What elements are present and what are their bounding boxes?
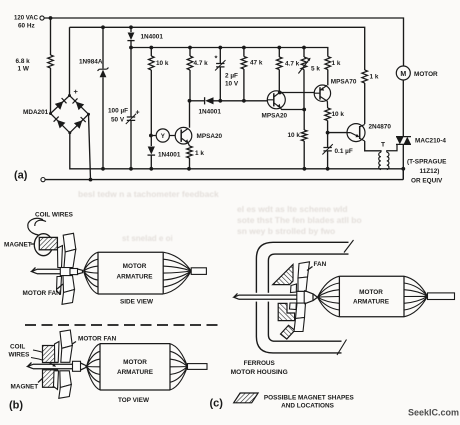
svg-text:OR EQUIV: OR EQUIV bbox=[411, 177, 443, 184]
svg-text:FERROUS: FERROUS bbox=[244, 360, 276, 367]
svg-text:100 µF: 100 µF bbox=[108, 108, 128, 115]
diode D1 1N4001 (series, top) bbox=[130, 27, 132, 32]
svg-text:MOTOR: MOTOR bbox=[123, 263, 147, 270]
transistor Q3 MPSA70 (PNP) bbox=[314, 85, 330, 101]
magnet lower (top view) bbox=[43, 370, 58, 388]
svg-text:MPSA70: MPSA70 bbox=[331, 79, 357, 86]
motor armature (c) bbox=[339, 276, 404, 317]
svg-text:4.7 k: 4.7 k bbox=[285, 61, 300, 68]
armature shaft right (side view) bbox=[191, 268, 206, 275]
svg-text:1N4001: 1N4001 bbox=[199, 109, 222, 116]
node: junction top bus / 6.8k bbox=[49, 16, 53, 20]
svg-text:ARMATURE: ARMATURE bbox=[116, 274, 153, 281]
resistor 10k (below pot) bbox=[303, 110, 305, 131]
wire: Q2 emitter to 5k/10k node bbox=[281, 108, 305, 110]
terminal: AC input bottom bbox=[41, 178, 45, 182]
node: bus C junction x=279.3 bbox=[277, 46, 281, 50]
svg-text:st snelad e oi: st snelad e oi bbox=[122, 234, 173, 243]
svg-text:1 k: 1 k bbox=[332, 60, 341, 67]
transistor Q1 MPSA20 bbox=[189, 101, 191, 128]
wire: bottom AC return line bbox=[45, 179, 403, 181]
svg-text:COIL WIRES: COIL WIRES bbox=[35, 212, 74, 219]
svg-text:10 k: 10 k bbox=[156, 60, 169, 67]
resistor 1k (emitter MPSA70) bbox=[325, 57, 331, 70]
transistor Q2 MPSA20 bbox=[267, 91, 285, 109]
node: bus C junction x=220.3 bbox=[218, 46, 222, 50]
svg-text:MOTOR: MOTOR bbox=[414, 71, 438, 78]
diode 1N4001 (lower left) bbox=[150, 136, 152, 147]
bridge diode upper-right bbox=[76, 102, 85, 111]
capacitor C1 100uF 50V (filter) bbox=[130, 48, 132, 118]
svg-text:60 Hz: 60 Hz bbox=[18, 23, 35, 30]
svg-text:(c): (c) bbox=[210, 398, 224, 410]
svg-text:10 k: 10 k bbox=[332, 111, 345, 118]
housing break marks bbox=[337, 240, 354, 355]
svg-text:SeekIC.com: SeekIC.com bbox=[408, 408, 459, 418]
svg-text:MOTOR FAN: MOTOR FAN bbox=[23, 290, 62, 297]
fan blades (top view, front) bbox=[59, 330, 73, 398]
bridge diode upper-left bbox=[55, 101, 64, 109]
magnet upper (top view) bbox=[43, 346, 58, 363]
armature nose cone (side view) bbox=[78, 269, 83, 274]
resistor 4.7k (second) bbox=[278, 48, 280, 58]
svg-text:T: T bbox=[381, 141, 385, 148]
svg-text:2N4870: 2N4870 bbox=[369, 124, 392, 131]
svg-text:MOTOR HOUSING: MOTOR HOUSING bbox=[231, 369, 288, 376]
magnet diamond (c) bbox=[281, 325, 295, 339]
svg-text:(a): (a) bbox=[14, 170, 28, 182]
svg-text:11Z12): 11Z12) bbox=[420, 168, 440, 175]
node: DC- bus junction x=151.3 bbox=[149, 167, 153, 171]
svg-text:MPSA20: MPSA20 bbox=[197, 133, 223, 140]
potentiometer 5k bbox=[303, 48, 305, 58]
pickup coil Y (tach sensor) bbox=[151, 135, 156, 137]
svg-text:MAGNET: MAGNET bbox=[4, 242, 32, 249]
wire: DC+ bus (bus B) from bridge top to right, down to 1k/UJT bbox=[70, 27, 365, 95]
svg-text:(T-SPRAGUE: (T-SPRAGUE bbox=[407, 158, 447, 165]
dashed separator line bbox=[25, 324, 222, 326]
svg-text:(b): (b) bbox=[9, 400, 23, 412]
motor fan blades (side view, front) bbox=[62, 233, 76, 304]
svg-text:MAGNET: MAGNET bbox=[11, 384, 39, 391]
node: DC- bus junction x=327.6 bbox=[326, 167, 330, 171]
diode 1N4001 (horizontal) bbox=[190, 100, 205, 102]
motor shaft (c) bbox=[234, 293, 297, 299]
svg-text:+: + bbox=[74, 87, 79, 96]
svg-text:MDA201: MDA201 bbox=[23, 109, 49, 116]
svg-text:M: M bbox=[400, 71, 406, 78]
svg-text:5 k: 5 k bbox=[311, 66, 320, 73]
node: emitter/pot/10k junction bbox=[302, 108, 306, 112]
node: timing node left bbox=[188, 99, 192, 103]
armature shaft right (top view) bbox=[188, 364, 208, 370]
motor armature (top view) bbox=[100, 344, 170, 390]
svg-text:sote thst The fen blades atll: sote thst The fen blades atll bo bbox=[237, 215, 362, 225]
bridge diode lower-right bbox=[74, 120, 83, 128]
svg-text:MOTOR FAN: MOTOR FAN bbox=[78, 336, 117, 343]
node: bus C junction x=190 bbox=[188, 46, 192, 50]
resistor 10k (collector MPSA70) bbox=[326, 101, 328, 108]
fan hub (top view) bbox=[73, 361, 81, 371]
decorative ghost text (show-through) bbox=[78, 189, 362, 243]
fan blades (top view, back) bbox=[54, 342, 60, 390]
svg-text:MPSA20: MPSA20 bbox=[262, 113, 288, 120]
legend magnet swatch bbox=[234, 393, 258, 403]
armature nose cone (c) bbox=[304, 290, 317, 304]
svg-text:47 k: 47 k bbox=[250, 60, 263, 67]
resistor 1k (emitter Q1) bbox=[187, 146, 193, 158]
svg-text:FAN: FAN bbox=[314, 261, 327, 268]
motor fan blades (side view, back) bbox=[57, 246, 63, 295]
magnet (side view, hatched) bbox=[39, 237, 57, 249]
svg-text:1 k: 1 k bbox=[195, 150, 204, 157]
bridge diode lower-left bbox=[57, 120, 66, 128]
node: UJT emitter node bbox=[326, 131, 330, 135]
node: 1N4001 top on bus B bbox=[129, 25, 133, 29]
svg-text:POSSIBLE MAGNET SHAPES: POSSIBLE MAGNET SHAPES bbox=[264, 394, 355, 401]
svg-text:1 W: 1 W bbox=[18, 66, 30, 73]
svg-text:50 V: 50 V bbox=[111, 117, 125, 124]
svg-text:MAC210-4: MAC210-4 bbox=[415, 137, 446, 144]
svg-text:COIL: COIL bbox=[10, 344, 25, 351]
terminal: AC input top bbox=[40, 16, 44, 20]
svg-text:TOP VIEW: TOP VIEW bbox=[118, 397, 150, 404]
node: MT1 / common junction bbox=[401, 167, 405, 171]
svg-text:6.8 k: 6.8 k bbox=[16, 58, 31, 65]
coil wires leaders (top view) bbox=[31, 350, 57, 366]
node: DC- bus junction x=304.4 bbox=[303, 167, 307, 171]
svg-text:1N984A: 1N984A bbox=[79, 59, 103, 66]
node: bus C junction x=243.9 bbox=[242, 46, 246, 50]
armature shaft right (c) bbox=[428, 293, 455, 300]
svg-text:1N4001: 1N4001 bbox=[158, 152, 181, 159]
capacitor C3 0.1uF bbox=[327, 133, 329, 148]
svg-text:el es wdt as lte scheme wld: el es wdt as lte scheme wld bbox=[237, 204, 348, 214]
wire: down to AC return bbox=[402, 169, 404, 180]
node: DC- bus junction x=189 bbox=[187, 167, 191, 171]
wire: 6.8k branch from top bus down to bridge left vertex bbox=[50, 18, 52, 55]
svg-text:MOTOR: MOTOR bbox=[359, 289, 383, 296]
pickup coil loop (side view) bbox=[34, 234, 52, 256]
motor M bbox=[396, 66, 410, 80]
wire: bridge negative to DC- bus bbox=[70, 133, 403, 169]
fan hub (c) bbox=[297, 291, 304, 303]
triac MAC210-4 bbox=[396, 137, 411, 145]
unijunction transistor 2N4870 bbox=[328, 132, 347, 134]
node: 2uF / 47k on timing wire bbox=[218, 99, 222, 103]
node: pickup junction bbox=[149, 134, 153, 138]
wire: bridge right vertex down to AC return bbox=[89, 114, 91, 179]
node: bridge junction dots bbox=[68, 94, 71, 97]
resistor R 6.8k 1W bbox=[48, 55, 54, 68]
ferrous motor housing outer outline bbox=[256, 242, 348, 353]
ferrous motor housing inner outline bbox=[268, 254, 348, 341]
svg-text:ARMATURE: ARMATURE bbox=[117, 369, 154, 376]
resistor 4.7k (first) bbox=[189, 48, 191, 57]
transformer T primary winding bbox=[379, 152, 381, 169]
wire: triac gate to secondary bbox=[387, 144, 397, 152]
fan hub (side view) bbox=[60, 268, 70, 276]
svg-text:+: + bbox=[136, 110, 140, 117]
bridge rectifier MDA201 bbox=[51, 96, 89, 133]
svg-text:4.7 k: 4.7 k bbox=[194, 60, 209, 67]
node: DC- bus junction x=131 bbox=[129, 167, 133, 171]
motor shaft left (side view) bbox=[32, 268, 61, 274]
svg-text:*: * bbox=[215, 54, 218, 63]
svg-text:AND LOCATIONS: AND LOCATIONS bbox=[281, 402, 335, 409]
resistor 47k bbox=[243, 48, 245, 57]
svg-text:0.1 µF: 0.1 µF bbox=[335, 148, 353, 155]
armature nose cone (top view) bbox=[81, 363, 87, 370]
svg-text:10 k: 10 k bbox=[288, 132, 301, 139]
svg-text:besl tedw n a tachometer feedb: besl tedw n a tachometer feedback bbox=[78, 189, 219, 199]
node: bus C junction x=131 bbox=[129, 46, 133, 50]
wire: top AC hot bus bbox=[44, 18, 404, 66]
motor shaft left (top view) bbox=[28, 363, 73, 369]
resistor 10k (left) bbox=[150, 48, 152, 57]
node: Q2 collector / Q3 base bbox=[278, 91, 282, 95]
magnet triangle (c) bbox=[273, 265, 293, 285]
node: zener top on bus B bbox=[101, 25, 105, 29]
svg-text:1N4001: 1N4001 bbox=[141, 34, 164, 41]
magnet L-shape (c) bbox=[278, 303, 294, 320]
svg-text:SIDE VIEW: SIDE VIEW bbox=[120, 299, 154, 306]
shaft gap in housing spine bbox=[254, 293, 271, 302]
node: AC return junction bbox=[89, 178, 93, 182]
node: bus C junction x=304 bbox=[302, 46, 306, 50]
svg-text:MOTOR: MOTOR bbox=[123, 359, 147, 366]
svg-text:10 V: 10 V bbox=[225, 81, 239, 88]
svg-text:ARMATURE: ARMATURE bbox=[353, 298, 390, 305]
node: DC- bus junction x=103 bbox=[101, 167, 105, 171]
svg-text:1 k: 1 k bbox=[370, 74, 379, 81]
node: bus C junction x=151.3 bbox=[149, 46, 153, 50]
coil wire leads (side view) bbox=[28, 218, 46, 235]
svg-text:WIRES: WIRES bbox=[9, 352, 31, 359]
svg-text:120 VAC: 120 VAC bbox=[14, 15, 38, 22]
transformer T secondary winding bbox=[387, 152, 389, 169]
fan blades (c) bbox=[290, 262, 310, 332]
resistor 1k (UJT B2) bbox=[362, 70, 368, 83]
wire: Q2 collector to MPSA70 base bbox=[280, 92, 315, 94]
wire: regulated bus (bus C) bbox=[131, 48, 328, 57]
zener diode 1N984A bbox=[102, 27, 104, 68]
motor armature (side view) bbox=[98, 252, 163, 294]
svg-text:2 µF: 2 µF bbox=[225, 73, 238, 80]
capacitor C2 2uF 10V bbox=[219, 48, 221, 64]
svg-text:sn wey b strolled by fwo: sn wey b strolled by fwo bbox=[237, 226, 335, 236]
